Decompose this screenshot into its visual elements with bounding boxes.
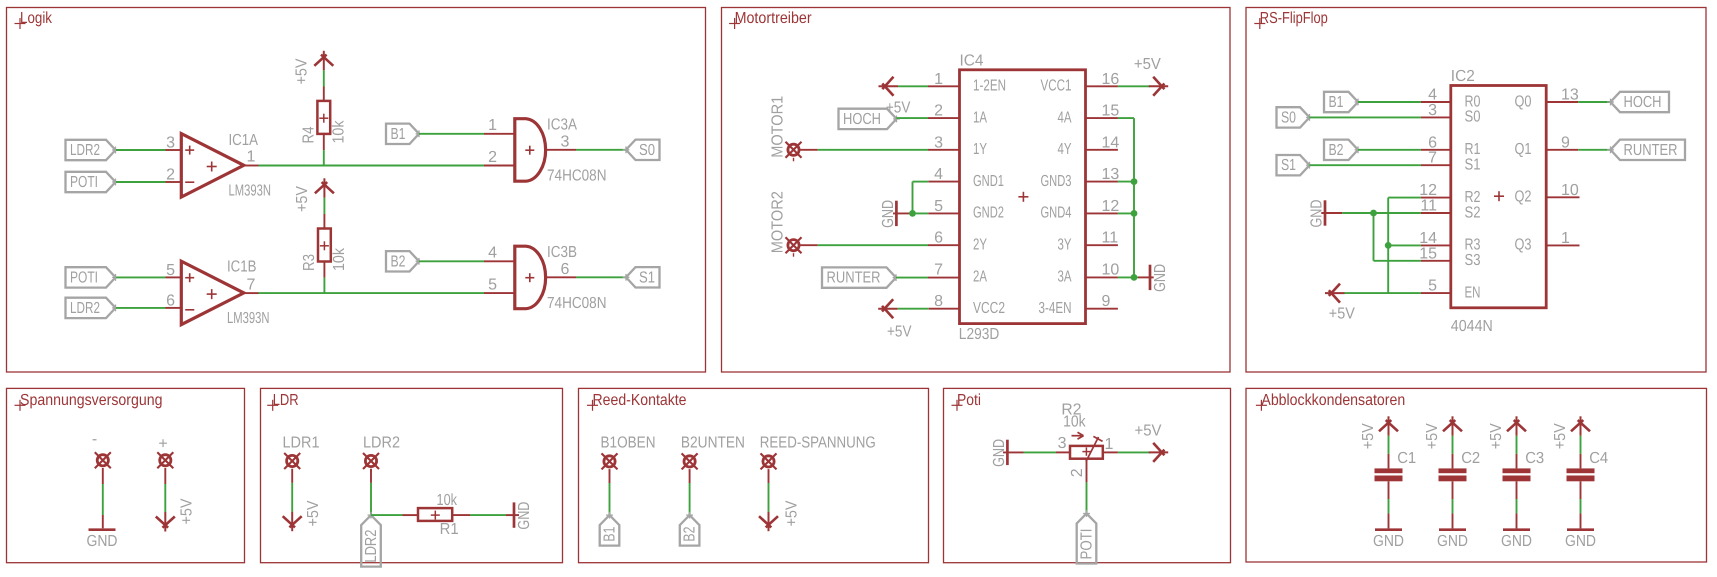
- wire +5V to EN: [1341, 292, 1343, 294]
- junction S2: [1370, 210, 1377, 217]
- wire RUNTER to pin 7: [896, 277, 928, 279]
- svg-text:9: 9: [1561, 134, 1570, 151]
- AND gate IC3B: [515, 246, 546, 309]
- trimmer arrow (R2): [1072, 435, 1082, 437]
- svg-text:S1: S1: [639, 269, 655, 286]
- svg-text:LDR1: LDR1: [283, 435, 320, 452]
- supply +5V arrow (down): [164, 512, 166, 532]
- pad B1OBEN: [604, 456, 615, 467]
- supply +5V arrow (C4): [1580, 416, 1582, 436]
- ground symbol (C4): [1567, 528, 1594, 531]
- svg-text:GND: GND: [87, 533, 118, 550]
- svg-text:4: 4: [934, 166, 943, 183]
- wire S1 to pin 7: [1310, 164, 1421, 166]
- capacitor C3: [1503, 468, 1531, 473]
- svg-text:2: 2: [166, 167, 175, 184]
- frame LDR: [261, 388, 563, 562]
- wire +5V to R3 top: [323, 198, 325, 214]
- svg-text:R3: R3: [301, 254, 318, 271]
- svg-text:GND: GND: [1373, 533, 1404, 550]
- svg-text:14: 14: [1102, 134, 1120, 151]
- svg-text:3: 3: [1058, 435, 1067, 452]
- svg-text:GND4: GND4: [1041, 205, 1072, 222]
- flag HOCH (RS): [1611, 92, 1670, 112]
- junction pin 10: [1131, 274, 1138, 281]
- svg-text:11: 11: [1102, 230, 1119, 247]
- supply +5V arrow (Poti, right): [1149, 451, 1169, 453]
- frame Reed-Kontakte: [579, 388, 929, 562]
- flag LDR2 (up): [361, 515, 381, 567]
- wire R4 bottom to net: [323, 134, 325, 150]
- flag HOCH: [839, 109, 897, 129]
- wire C1 to GND: [1388, 481, 1390, 499]
- svg-text:Spannungsversorgung: Spannungsversorgung: [20, 392, 163, 409]
- svg-text:MOTOR2: MOTOR2: [770, 191, 787, 253]
- svg-text:VCC2: VCC2: [973, 300, 1005, 317]
- wire B1 to pin 4: [1358, 101, 1421, 103]
- svg-text:IC1B: IC1B: [227, 259, 257, 276]
- wire IC1A out to IC3A pin 2: [244, 165, 259, 167]
- svg-text:1-2EN: 1-2EN: [973, 78, 1006, 95]
- svg-text:10k: 10k: [437, 492, 458, 509]
- svg-text:1: 1: [934, 71, 943, 88]
- wire pin 15 to bus: [1086, 117, 1118, 119]
- svg-text:LM393N: LM393N: [227, 310, 270, 327]
- wire minus to GND: [102, 468, 104, 484]
- svg-text:GND1: GND1: [973, 173, 1004, 190]
- svg-text:POTI: POTI: [70, 174, 98, 191]
- svg-text:LDR2: LDR2: [363, 530, 380, 563]
- wire Q1 to RUNTER: [1546, 149, 1578, 151]
- svg-text:Q0: Q0: [1515, 93, 1532, 110]
- wire +5V to C3: [1516, 436, 1518, 454]
- wire pin 16 to +5V: [1086, 85, 1118, 87]
- flag S1 (RS): [1277, 155, 1310, 175]
- svg-text:+5V: +5V: [1360, 423, 1377, 449]
- svg-text:GND3: GND3: [1041, 173, 1072, 190]
- wire REED down: [768, 469, 770, 483]
- svg-text:RS-FlipFlop: RS-FlipFlop: [1260, 10, 1328, 27]
- svg-text:Abblockkondensatoren: Abblockkondensatoren: [1261, 392, 1405, 409]
- IC L293D box: [960, 70, 1086, 324]
- svg-text:GND: GND: [991, 439, 1008, 467]
- svg-text:12: 12: [1102, 198, 1120, 215]
- frame Logik: [7, 8, 706, 373]
- svg-text:HOCH: HOCH: [843, 111, 881, 128]
- wire pin 12: [1388, 197, 1421, 199]
- svg-text:2A: 2A: [973, 268, 987, 285]
- svg-text:9: 9: [1102, 293, 1111, 310]
- svg-text:+: +: [158, 435, 167, 452]
- svg-text:8: 8: [934, 293, 943, 310]
- svg-text:B1: B1: [1329, 94, 1344, 111]
- svg-text:+5V: +5V: [305, 500, 322, 526]
- svg-text:B1: B1: [602, 527, 619, 542]
- wire +5V to R4 top: [323, 70, 325, 86]
- ground symbol (supply): [89, 528, 116, 531]
- capacitor C1: [1375, 468, 1403, 473]
- svg-text:C1: C1: [1397, 450, 1416, 467]
- svg-text:6: 6: [934, 230, 943, 247]
- svg-text:+5V: +5V: [1329, 306, 1355, 323]
- svg-text:3: 3: [561, 134, 570, 151]
- frame Motortreiber: [722, 8, 1231, 373]
- supply +5V above R4: [323, 51, 325, 71]
- svg-text:GND: GND: [1565, 533, 1596, 550]
- title Spannungsversorgung origin cross: [15, 404, 26, 406]
- svg-text:LDR: LDR: [273, 392, 299, 409]
- svg-text:4Y: 4Y: [1058, 141, 1072, 158]
- svg-text:GND: GND: [1501, 533, 1532, 550]
- ground bus wire (right of IC4): [1133, 118, 1135, 277]
- wire B2 to pin 6: [1358, 149, 1421, 151]
- wire IC3B out to flag S1: [547, 276, 576, 278]
- flag RUNTER: [822, 267, 896, 287]
- svg-text:VCC1: VCC1: [1041, 78, 1072, 95]
- vertical net R2-EN: [1387, 198, 1389, 294]
- svg-text:B1OBEN: B1OBEN: [601, 435, 656, 452]
- vertical net S2-S3: [1373, 213, 1375, 261]
- wire B1 to IC3A pin 1: [419, 133, 484, 135]
- svg-text:C2: C2: [1461, 450, 1480, 467]
- svg-text:3Y: 3Y: [1058, 237, 1072, 254]
- svg-text:10k: 10k: [1063, 414, 1086, 431]
- svg-text:5: 5: [488, 277, 497, 294]
- wire junction to pin 5: [928, 212, 959, 214]
- wire LDR2 to IC1B pin 6: [116, 307, 166, 309]
- flag S0: [626, 140, 660, 160]
- svg-text:+5V: +5V: [887, 324, 912, 341]
- svg-text:+5V: +5V: [1488, 423, 1505, 449]
- capacitor C4: [1567, 468, 1595, 473]
- svg-text:2Y: 2Y: [973, 237, 987, 254]
- wire C2 to GND: [1452, 481, 1454, 499]
- svg-text:-: -: [92, 431, 97, 448]
- AND gate IC3A: [515, 119, 546, 182]
- flag LDR2 (lower): [66, 298, 116, 318]
- wire +5V to pin 8: [898, 308, 929, 310]
- svg-text:11: 11: [1420, 198, 1437, 215]
- svg-text:B2UNTEN: B2UNTEN: [681, 435, 745, 452]
- svg-text:LDR2: LDR2: [363, 435, 400, 452]
- wire GND to junction: [1342, 212, 1373, 214]
- svg-text:74HC08N: 74HC08N: [547, 295, 607, 312]
- svg-text:10: 10: [1102, 262, 1120, 279]
- svg-text:2: 2: [488, 149, 497, 166]
- supply +5V arrow at IC4 pin 16: [1149, 85, 1169, 87]
- title LDR origin cross: [267, 404, 278, 406]
- svg-text:5: 5: [1428, 278, 1437, 295]
- wire S0 to pin 3: [1310, 116, 1421, 118]
- pad plus: [160, 455, 171, 466]
- svg-text:10k: 10k: [331, 120, 348, 144]
- pin 1 stub: [1546, 244, 1579, 246]
- svg-text:+5V: +5V: [1134, 56, 1161, 73]
- title Reed-Kontakte origin cross: [587, 404, 598, 406]
- frame Spannungsversorgung: [7, 388, 245, 562]
- wire POTI to IC1B pin 5: [116, 276, 166, 278]
- svg-text:74HC08N: 74HC08N: [547, 167, 607, 184]
- wire B2 to IC3B pin 4: [419, 260, 484, 262]
- svg-text:3A: 3A: [1058, 268, 1072, 285]
- svg-text:POTI: POTI: [1079, 529, 1096, 560]
- wire +5V to pin 1: [898, 85, 928, 87]
- wire pin 15: [1374, 260, 1421, 262]
- svg-text:+5V: +5V: [294, 58, 311, 84]
- pad MOTOR2: [788, 240, 799, 251]
- trimmer slot (R2): [1086, 437, 1099, 462]
- supply +5V arrow at EN: [1325, 292, 1345, 294]
- svg-text:Motortreiber: Motortreiber: [735, 10, 813, 27]
- pin 11 stub: [1086, 244, 1118, 246]
- svg-text:B2: B2: [1329, 142, 1344, 159]
- junction at pin 5: [910, 212, 928, 214]
- svg-text:S0: S0: [639, 142, 655, 159]
- svg-text:S0: S0: [1281, 109, 1296, 126]
- wire pin 14: [1388, 244, 1421, 246]
- ground symbol (C1): [1375, 528, 1402, 531]
- flag B1 (RS): [1324, 92, 1358, 112]
- svg-text:GND: GND: [516, 502, 533, 530]
- svg-text:Logik: Logik: [20, 10, 53, 27]
- ground symbol (IC4 pins 4/5): [893, 212, 910, 214]
- title Motortreiber origin cross: [729, 23, 740, 25]
- frame RS-FlipFlop: [1246, 8, 1706, 373]
- ground symbol (Poti): [1003, 451, 1024, 453]
- wire IC1B out to IC3B pin 5: [244, 292, 259, 294]
- wire IC3A out to flag S0: [547, 149, 576, 151]
- svg-text:1: 1: [1105, 436, 1114, 453]
- svg-text:IC2: IC2: [1451, 68, 1475, 85]
- resistor R3: [318, 229, 331, 262]
- svg-text:HOCH: HOCH: [1624, 94, 1662, 111]
- IC 4044N box: [1451, 86, 1546, 308]
- flag POTI (upper): [66, 172, 116, 192]
- pad LDR1: [287, 455, 298, 466]
- svg-text:10k: 10k: [331, 247, 348, 271]
- supply +5V arrow (C1): [1388, 416, 1390, 436]
- pin 14 stub: [1086, 149, 1118, 151]
- op-amp IC1A: [181, 134, 244, 197]
- svg-text:5: 5: [166, 262, 175, 279]
- junction pin 12: [1131, 210, 1138, 217]
- svg-text:L293D: L293D: [959, 326, 1000, 343]
- svg-text:16: 16: [1102, 71, 1120, 88]
- svg-text:+5V: +5V: [886, 99, 911, 116]
- wire MOTOR2 to pin 6: [801, 244, 818, 246]
- svg-text:Q2: Q2: [1515, 189, 1532, 206]
- svg-text:RUNTER: RUNTER: [1624, 142, 1678, 159]
- capacitor C2: [1439, 468, 1467, 473]
- svg-text:S0: S0: [1465, 109, 1481, 126]
- svg-text:1: 1: [488, 117, 497, 134]
- supply +5V arrow (C3): [1516, 416, 1518, 436]
- svg-text:+5V: +5V: [1424, 423, 1441, 449]
- flag S0 (RS): [1277, 107, 1310, 127]
- svg-text:B2: B2: [391, 253, 406, 270]
- svg-text:15: 15: [1102, 103, 1120, 120]
- wire C3 to GND: [1516, 481, 1518, 499]
- wire LDR2 node to R1: [371, 514, 403, 516]
- flag LDR2 (upper): [66, 140, 116, 160]
- svg-text:GND: GND: [1152, 264, 1169, 292]
- svg-text:LM393N: LM393N: [229, 183, 272, 200]
- svg-text:6: 6: [166, 293, 175, 310]
- svg-text:7: 7: [934, 262, 943, 279]
- wire B1OBEN down: [609, 469, 611, 483]
- wire R2 pin 1 to +5V: [1103, 451, 1118, 453]
- ground symbol (LDR): [513, 502, 516, 527]
- svg-text:1: 1: [247, 149, 256, 166]
- resistor R4: [317, 101, 330, 134]
- svg-text:C4: C4: [1589, 450, 1608, 467]
- wire Q0 to HOCH: [1546, 101, 1578, 103]
- wire R1 to GND: [452, 514, 470, 516]
- flag B1 (up): [600, 515, 620, 546]
- junction R3: [1385, 242, 1392, 249]
- title RS-FlipFlop origin cross: [1254, 23, 1265, 25]
- svg-text:S1: S1: [1465, 157, 1481, 174]
- svg-text:RUNTER: RUNTER: [827, 270, 881, 287]
- svg-text:IC1A: IC1A: [229, 132, 259, 149]
- wire LDR2 to IC1A pin 3: [116, 149, 166, 151]
- pad B2UNTEN: [684, 456, 695, 467]
- wire MOTOR1 to pin 3: [801, 149, 818, 151]
- wire +5V to C2: [1452, 436, 1454, 454]
- wire pin 12 to bus: [1086, 212, 1118, 214]
- junction pin 13: [1131, 178, 1138, 185]
- wire LDR2 down: [370, 469, 372, 483]
- wire B2UNTEN down: [689, 469, 691, 483]
- svg-text:3: 3: [166, 135, 175, 152]
- frame Poti: [944, 388, 1231, 562]
- svg-text:REED-SPANNUNG: REED-SPANNUNG: [760, 435, 876, 452]
- wire GND to R2 pin 3: [1024, 451, 1057, 453]
- svg-text:4A: 4A: [1058, 109, 1072, 126]
- title Poti origin cross: [952, 404, 963, 406]
- svg-text:R4: R4: [300, 126, 317, 143]
- svg-text:IC3A: IC3A: [547, 116, 577, 133]
- svg-text:B1: B1: [391, 126, 406, 143]
- pad LDR2: [365, 455, 376, 466]
- supply +5V arrow (REED, down): [768, 512, 770, 532]
- wire +5V to C4: [1580, 436, 1582, 454]
- op-amp IC1B: [181, 261, 244, 324]
- pin 9 stub: [1086, 308, 1118, 310]
- svg-text:IC3B: IC3B: [547, 244, 577, 261]
- svg-text:Q1: Q1: [1515, 141, 1532, 158]
- resistor R1: [418, 508, 452, 521]
- svg-text:3: 3: [934, 134, 943, 151]
- svg-text:S1: S1: [1281, 157, 1296, 174]
- wire pin 13 to bus: [1086, 181, 1118, 183]
- svg-text:15: 15: [1419, 245, 1437, 262]
- wire pin 5 EN: [1345, 292, 1421, 294]
- supply +5V arrow (LDR1, down): [291, 512, 293, 532]
- svg-text:Q3: Q3: [1515, 237, 1532, 254]
- svg-text:10: 10: [1561, 182, 1579, 199]
- wire HOCH to pin 2: [896, 117, 928, 119]
- svg-text:MOTOR1: MOTOR1: [770, 96, 787, 158]
- wire pin 11: [1374, 212, 1421, 214]
- svg-text:C3: C3: [1525, 450, 1544, 467]
- svg-text:+5V: +5V: [1135, 423, 1162, 440]
- svg-text:Poti: Poti: [957, 392, 981, 409]
- title Logik origin cross: [15, 23, 26, 25]
- svg-text:6: 6: [561, 261, 570, 278]
- svg-text:GND: GND: [1437, 533, 1468, 550]
- svg-text:5: 5: [934, 198, 943, 215]
- frame Abblockkondensatoren: [1246, 388, 1707, 562]
- ground symbol (RS): [1321, 212, 1342, 214]
- svg-text:EN: EN: [1465, 284, 1481, 301]
- svg-text:S3: S3: [1465, 252, 1481, 269]
- svg-text:1A: 1A: [973, 109, 987, 126]
- supply +5V above R3: [323, 178, 325, 198]
- wire LDR1 to +5V: [291, 469, 293, 483]
- wire R2 pin 2 down: [1086, 459, 1088, 483]
- supply +5V arrow (C2): [1452, 416, 1454, 436]
- svg-text:+5V: +5V: [294, 186, 311, 212]
- svg-text:3: 3: [1428, 102, 1437, 119]
- wire POTI to IC1A pin 2: [116, 181, 166, 183]
- svg-text:Reed-Kontakte: Reed-Kontakte: [593, 392, 687, 409]
- ground symbol (C3): [1503, 528, 1530, 531]
- wire plus to +5V: [164, 468, 166, 484]
- ground symbol (IC4 right): [1134, 276, 1138, 278]
- svg-text:+5V: +5V: [179, 498, 196, 524]
- pad minus: [97, 455, 108, 466]
- svg-text:7: 7: [247, 277, 256, 294]
- svg-text:GND: GND: [1309, 200, 1326, 228]
- title Abblockkondensatoren origin cross: [1256, 404, 1267, 406]
- svg-text:3-4EN: 3-4EN: [1039, 300, 1072, 317]
- flag POTI (up): [1077, 514, 1097, 564]
- supply +5V arrow at IC4 pin 1: [879, 85, 899, 87]
- svg-text:1Y: 1Y: [973, 141, 987, 158]
- flag B2 (up): [680, 515, 700, 546]
- svg-text:13: 13: [1561, 87, 1579, 104]
- wire R3 bottom to net: [323, 262, 325, 278]
- svg-text:+5V: +5V: [1552, 423, 1569, 449]
- flag POTI (lower): [66, 267, 116, 287]
- flag RUNTER (RS): [1611, 140, 1686, 160]
- svg-text:GND: GND: [880, 200, 897, 228]
- svg-text:4044N: 4044N: [1451, 318, 1493, 335]
- flag S1: [626, 267, 660, 287]
- svg-text:7: 7: [1428, 150, 1437, 167]
- wire pin 4 to GND junction: [928, 181, 959, 183]
- svg-text:2: 2: [1069, 468, 1086, 477]
- svg-text:LDR2: LDR2: [70, 142, 100, 159]
- pad MOTOR1: [788, 144, 799, 155]
- pad REED-SPANNUNG: [763, 456, 774, 467]
- svg-text:13: 13: [1102, 166, 1120, 183]
- flag B1: [386, 124, 419, 144]
- svg-text:2: 2: [934, 103, 943, 120]
- svg-text:1: 1: [1561, 230, 1570, 247]
- wire C4 to GND: [1580, 481, 1582, 499]
- svg-text:IC4: IC4: [960, 53, 984, 70]
- flag B2 (RS): [1324, 140, 1358, 160]
- supply +5V arrow at IC4 pin 8: [878, 308, 898, 310]
- resistor R2: [1070, 446, 1103, 459]
- svg-text:S2: S2: [1465, 204, 1481, 221]
- svg-text:+5V: +5V: [784, 500, 801, 526]
- svg-text:LDR2: LDR2: [70, 300, 100, 317]
- svg-text:R1: R1: [440, 521, 459, 538]
- svg-text:4: 4: [488, 245, 497, 262]
